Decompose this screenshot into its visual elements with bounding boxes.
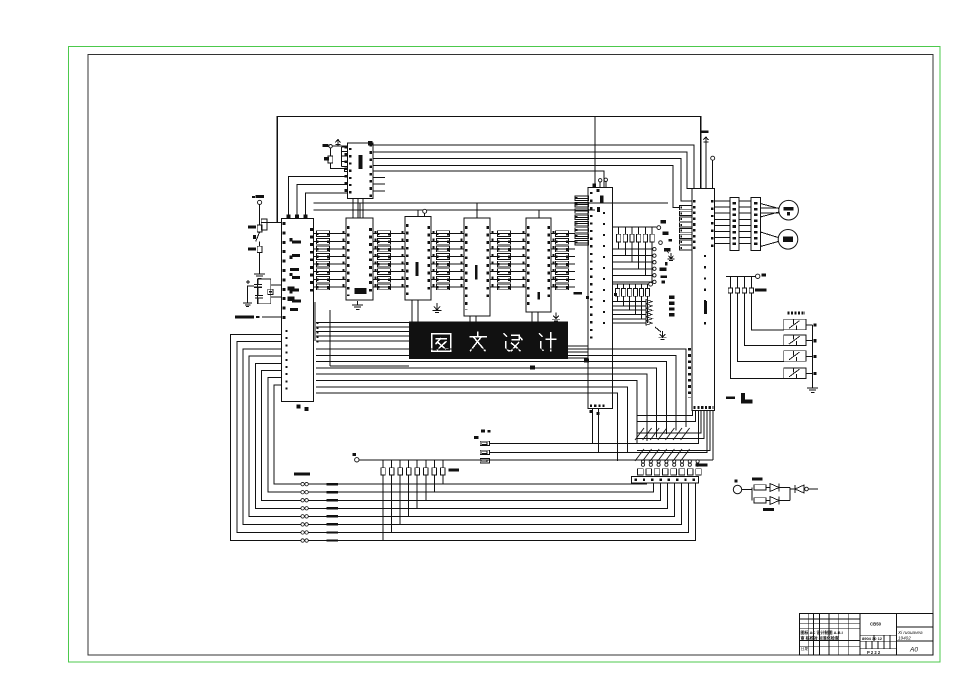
wire bus-mid 3 [316, 362, 666, 434]
title block middle cells [860, 634, 896, 636]
switch common rail [812, 325, 814, 388]
wires to motor M1 [760, 204, 778, 209]
U7 ticks [590, 192, 592, 340]
resistor RB4 [635, 284, 637, 288]
switch SW2 [784, 335, 806, 346]
resistor RA5 [644, 227, 646, 234]
svg-text:A0: A0 [909, 647, 918, 654]
pin ladder L2 [378, 231, 391, 237]
wire bus-mid 1 [316, 349, 686, 427]
wire RS rail [726, 275, 755, 277]
svg-text:8904 30 12: 8904 30 12 [862, 636, 883, 641]
banner-right bus [568, 345, 588, 347]
wire bus-left 1 [231, 335, 696, 541]
group A labels [661, 220, 667, 223]
RP label [449, 468, 460, 471]
pin ladder L6 [575, 196, 589, 201]
svg-text:审 核校对 标准化检查: 审 核校对 标准化检查 [801, 635, 839, 641]
switch S0 [256, 232, 260, 242]
U8 ticks [693, 200, 696, 250]
U7 bar [600, 196, 603, 204]
crystal/cap network box [258, 279, 271, 304]
U2-U3 verticals [352, 199, 354, 219]
svg-text:日期: 日期 [801, 645, 809, 651]
ground below ladder [436, 303, 438, 309]
wire P1 down [259, 205, 261, 225]
U8 bottom pin row [694, 406, 714, 409]
diode D1 [770, 484, 779, 492]
wire cap to ground2 [248, 286, 254, 303]
capacitor C2 [255, 295, 263, 297]
group A rows + LED circles [613, 248, 653, 250]
U6 bar [537, 292, 540, 300]
resistor RP3 [398, 468, 402, 475]
wire U8-bottom 3 [490, 411, 699, 444]
wire bus-mid 7 [316, 387, 627, 453]
resistor RB3 [629, 284, 631, 288]
U5 ticks [465, 226, 468, 310]
reset label bar [235, 315, 254, 318]
U2 right wires to right side [373, 145, 694, 188]
resistor RS4 [750, 276, 752, 288]
banner feed verticals [314, 302, 316, 341]
U3 ticks [347, 226, 350, 296]
U8 left pin ladder [680, 206, 693, 210]
pin ladder L1 [317, 231, 330, 237]
resistor RS1 [729, 276, 731, 288]
wire RP rail [359, 459, 713, 461]
opto circle [733, 485, 741, 493]
wires to U1 [271, 284, 282, 286]
ground G1 [259, 270, 261, 274]
resistor RA4 [638, 227, 640, 234]
ground below U6 [555, 313, 557, 318]
wire U8-bottom 6 [490, 411, 708, 453]
wire bus-mid 4 [316, 368, 657, 438]
resistor RD1 [754, 485, 766, 490]
wire top bus B [314, 209, 596, 211]
wire U8-bottom 8 [712, 411, 714, 460]
U5 bar [475, 265, 478, 280]
wire opto [742, 489, 752, 491]
IC U4 [405, 217, 431, 301]
U8 bar [704, 301, 707, 314]
svg-text:Xi ruouavea: Xi ruouavea [897, 630, 923, 635]
U4 bar [416, 262, 419, 276]
U7 bottom stubs [590, 410, 593, 413]
hatch diagonals [635, 428, 644, 440]
diode D3 reversed [790, 488, 795, 490]
resistor R2 [328, 156, 333, 163]
wire U8-bottom 7 [637, 411, 710, 451]
ground group A [664, 249, 669, 253]
svg-text:P 2 2 2: P 2 2 2 [867, 650, 881, 655]
wire U8-bottom 5 [637, 411, 704, 439]
relay box K1 [261, 219, 267, 230]
wire bus-left 6 [262, 371, 661, 501]
U4 ticks [406, 224, 409, 296]
wire: main top loop [277, 117, 701, 223]
resistor RB2 [623, 284, 625, 288]
plus mark [246, 281, 250, 283]
resistor R3 [257, 225, 262, 232]
pin ladder L5 [556, 231, 569, 237]
U2 pin marks [344, 146, 347, 196]
strip circles [641, 460, 644, 463]
driver block B2 [751, 197, 760, 250]
resistor RP5 [415, 468, 419, 475]
resistor RA3 [631, 227, 633, 234]
wire bus-mid 2 [316, 355, 676, 430]
wire reset [262, 316, 282, 318]
wire bus-left 5 [255, 363, 667, 508]
wires to motor M2 [760, 232, 778, 238]
wire U8-bottom 2 [637, 411, 695, 422]
crystal Y1 [268, 289, 273, 294]
switch ground [812, 384, 814, 388]
resistor R4 [259, 241, 261, 246]
switch SW3 [784, 351, 806, 362]
U6 ticks [527, 226, 530, 306]
pullup circle X1 [329, 145, 332, 148]
diode D2 [770, 497, 779, 505]
connector boxes CB [480, 441, 489, 445]
svg-text:CB50: CB50 [870, 622, 882, 627]
svg-text:图标 AC 设计制图 A.B.I: 图标 AC 设计制图 A.B.I [801, 629, 843, 635]
U8 top circle [711, 156, 715, 160]
wire bus-left 4 [249, 356, 674, 516]
wire bus-mid 5 [316, 374, 647, 441]
wire bus-mid 6 [316, 381, 637, 444]
resistor RB1 [617, 284, 619, 288]
bus net-name dashes [327, 539, 339, 541]
U2 internal bar [359, 155, 363, 169]
switch label [788, 312, 805, 315]
below-banner marks [530, 366, 535, 370]
wire U8-bottom 1 [637, 411, 693, 416]
circle at U4 top [423, 209, 427, 213]
black banner 图文设计 [409, 322, 568, 360]
resistor RP4 [406, 468, 410, 475]
driver block B1 [730, 197, 739, 250]
U2 left stubs [341, 147, 343, 167]
svg-text:19402: 19402 [898, 636, 911, 641]
wire bus-left 2 [237, 342, 689, 533]
U7 bottom pin row [590, 405, 605, 407]
resistor RP1 [381, 468, 385, 475]
wire bus-left 7 [268, 378, 654, 493]
IC U2 [348, 143, 374, 199]
ladder row wires [314, 233, 347, 235]
resistor RP2 [389, 468, 393, 475]
wires between blocks [739, 200, 751, 202]
resistor RP7 [432, 468, 436, 475]
RP rail circle [355, 458, 359, 462]
IC top feed stubs [359, 203, 361, 218]
resistor RB6 [646, 284, 648, 288]
wire to ground [259, 253, 261, 274]
label [763, 508, 774, 511]
below-banner wires [330, 361, 409, 363]
drawing sheet green border frame [69, 47, 941, 663]
ground group B [655, 327, 661, 332]
resistor RP8 [441, 468, 445, 475]
IC U1 [282, 218, 314, 401]
pin ladder L3 [437, 231, 450, 237]
ground below U3 [357, 301, 359, 305]
banner-left bus [316, 321, 409, 323]
bus label bar [294, 473, 310, 476]
ground G2 [247, 300, 249, 303]
wire R2 chain [330, 148, 332, 156]
wire bus-left 3 [243, 349, 682, 525]
U1 pin tick columns [282, 222, 285, 322]
U8 right stubs [715, 200, 730, 202]
resistor RP6 [424, 468, 428, 475]
resistor RS2 [736, 276, 738, 288]
connector strip J1 [632, 476, 699, 483]
resistor RB5 [641, 284, 643, 288]
wire circle to U2 [332, 145, 347, 147]
L-mark [741, 393, 745, 403]
LED group A rail [613, 226, 657, 228]
wires U2 to U1 top [289, 176, 348, 215]
wire U8-bottom 4 [637, 411, 701, 433]
IC U8 [692, 189, 715, 411]
switch SW1 [784, 319, 806, 330]
strip label [696, 464, 708, 467]
motor M1 [779, 200, 799, 220]
wire bus-mid 8 [316, 393, 618, 461]
capacitor C1 [254, 284, 262, 286]
VCC arrow (U2) [337, 140, 339, 147]
motor M2 [778, 230, 798, 250]
IC U6 [526, 218, 551, 312]
IC U5 [464, 218, 490, 316]
wire: top loop branch to U7 [594, 117, 596, 188]
resistor RD2 [754, 498, 766, 503]
input circle P1 [258, 200, 262, 204]
U8 left pin marks [688, 348, 691, 398]
pin ladder L4 [498, 231, 511, 237]
resistor RA6 [651, 227, 653, 234]
U7 top circles [599, 179, 602, 182]
group B rows + diodes [613, 301, 647, 303]
IC U7 [588, 188, 613, 409]
wire: junction to U1 [261, 221, 281, 223]
LED group B rail [613, 283, 649, 285]
IC U3 [346, 218, 373, 300]
inner black border frame [88, 55, 933, 656]
resistor RS3 [743, 276, 745, 288]
RS wires to switches [730, 293, 783, 378]
U3 bottom bar [355, 288, 367, 294]
resistor RA2 [624, 227, 626, 234]
group B labels [669, 296, 674, 318]
resistor RA1 [618, 227, 620, 234]
switch SW4 [784, 368, 806, 379]
title block table [800, 614, 934, 655]
wire bus-left 8 [274, 385, 646, 484]
wire top bus A [314, 202, 669, 204]
U8 top: vcc arrow [705, 138, 707, 145]
stubs below ICs [411, 300, 413, 322]
